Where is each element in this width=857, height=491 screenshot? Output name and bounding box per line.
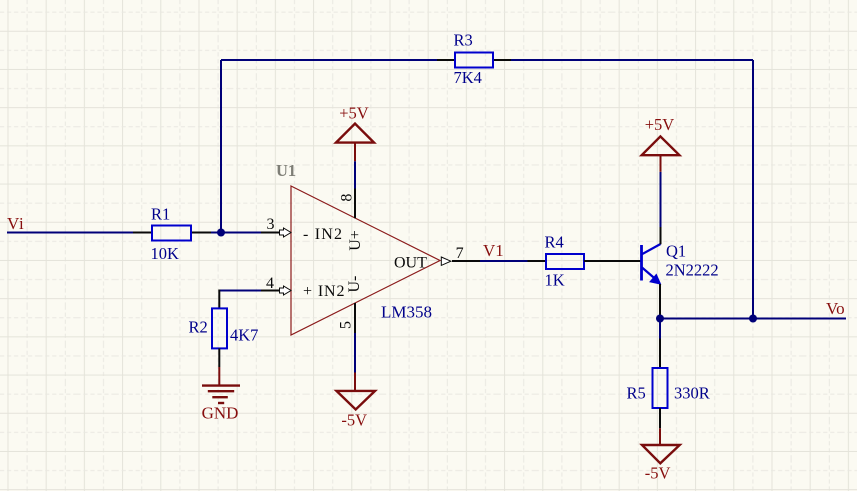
wire output horizontal [660,318,846,320]
resistor R5 [627,339,710,429]
power +5V op-amp [336,103,374,161]
svg-text:V1: V1 [483,241,504,260]
svg-text:Vo: Vo [826,299,845,318]
svg-text:R5: R5 [627,383,646,402]
wire feedback top right [511,59,753,61]
power +5V transistor [642,115,680,172]
svg-text:-5V: -5V [645,464,671,483]
svg-text:R3: R3 [454,30,473,49]
svg-text:LM358: LM358 [381,303,432,322]
U1 pin 4 [261,275,345,300]
svg-text:U1: U1 [276,161,296,180]
ground GND [202,367,240,423]
svg-text:3: 3 [267,216,275,233]
svg-text:OUT: OUT [394,254,427,271]
U1 pin 5 [338,276,364,333]
svg-text:1K: 1K [545,271,565,290]
wire pin5 to -5V [354,333,356,373]
wire feedback vertical left [220,60,222,233]
wire emitter to R5 [659,319,661,339]
node junction R1/feedback [217,229,225,237]
wire R1 to pin3 [211,232,261,234]
svg-text:+5V: +5V [339,103,369,122]
svg-text:330R: 330R [674,383,710,402]
svg-text:U-: U- [346,276,363,293]
svg-text:5: 5 [338,321,355,329]
svg-text:-5V: -5V [341,410,367,429]
U1 pin 7 output [394,245,480,272]
svg-text:4K7: 4K7 [230,325,258,344]
power -5V transistor [642,428,680,482]
transistor Q1 [642,241,719,284]
resistor R3 [437,30,511,87]
op-amp U1 [276,161,440,335]
resistor R2 [189,308,259,367]
resistor R1 [133,204,211,262]
svg-text:Vi: Vi [7,214,25,233]
svg-text:8: 8 [339,194,356,202]
wire feedback top left [221,59,437,61]
wire pin7 to R4 [480,260,528,262]
U1 pin 8 [339,189,365,251]
svg-text:+5V: +5V [645,115,675,134]
wire Q1 collector [660,227,662,244]
node emitter junction [656,315,664,323]
wire Vi input [7,232,133,234]
svg-text:GND: GND [202,404,239,423]
wire R2 top vertical [218,290,220,309]
svg-text:4: 4 [266,275,274,292]
wire pin4 horizontal [219,290,261,292]
svg-text:+ IN2: + IN2 [303,283,345,300]
svg-text:U+: U+ [347,230,364,251]
svg-text:R4: R4 [545,233,564,252]
wire collector to +5V [660,172,662,227]
wire R4 to Q1 base [584,260,641,262]
power -5V op-amp [337,373,376,430]
svg-text:Q1: Q1 [666,241,686,260]
svg-text:R1: R1 [151,204,170,223]
wire feedback vertical right [752,60,754,319]
svg-text:7: 7 [456,245,464,262]
wire +5V to pin8 [354,161,356,188]
wire Q1 emitter down [659,284,661,319]
svg-text:7K4: 7K4 [454,68,482,87]
svg-text:10K: 10K [151,244,180,263]
resistor R4 [528,233,585,290]
U1 pin 3 [261,216,343,243]
svg-text:2N2222: 2N2222 [666,261,719,280]
svg-text:- IN2: - IN2 [303,226,343,243]
node feedback junction [749,315,757,323]
svg-text:R2: R2 [189,318,208,337]
